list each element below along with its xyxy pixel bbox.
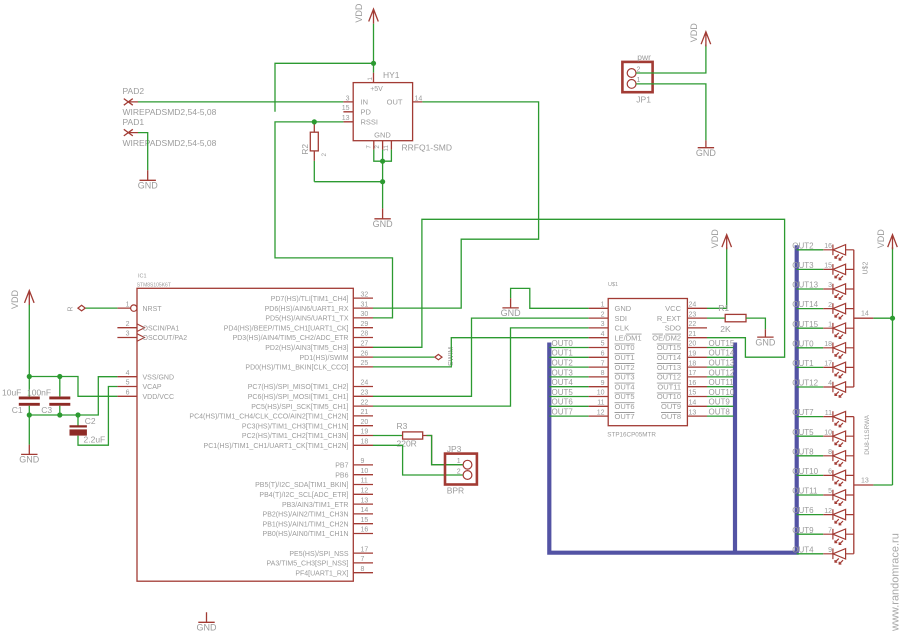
svg-text:OUT0: OUT0 [615,343,635,352]
svg-text:R2: R2 [300,144,310,155]
svg-text:PC6(HS)/SPI_MOSI[TIM1_CH1]: PC6(HS)/SPI_MOSI[TIM1_CH1] [248,394,349,401]
wire NRST [86,307,118,309]
svg-text:22: 22 [689,321,697,328]
wire C2-VCAP [78,387,117,446]
svg-text:CLK: CLK [615,324,630,333]
svg-text:SDO: SDO [665,324,681,333]
svg-text:PB2(HS)/AIN2/TIM1_CH3N: PB2(HS)/AIN2/TIM1_CH3N [263,512,349,519]
wire R3 to JP3 pin1 [423,436,463,465]
wire net OUT6 (bus to LED) [797,514,824,516]
svg-text:OUT7: OUT7 [552,408,574,417]
svg-text:OUT9: OUT9 [792,526,814,535]
capacitor C1 [19,398,40,404]
wire net OUT3 (bus to U$1) [549,376,588,378]
svg-text:18: 18 [824,341,832,348]
svg-text:7: 7 [365,145,372,149]
svg-text:PB6: PB6 [335,472,348,479]
ground (PAD1) [140,170,156,180]
wire common1-VDD [873,317,892,319]
svg-text:17: 17 [689,370,697,377]
LED OUT5 [823,431,854,447]
svg-text:OUT3: OUT3 [792,261,814,270]
svg-text:PC2(HS)/TIM1_CH2[TIM1_CH3N]: PC2(HS)/TIM1_CH2[TIM1_CH3N] [242,433,349,440]
wire net OUT12 (U$1 to bus) [707,376,734,378]
svg-text:PB0(HS)/AIN0/TIM1_CH1N: PB0(HS)/AIN0/TIM1_CH1N [263,531,349,538]
wire net OUT13 (U$1 to bus) [707,366,734,368]
svg-text:4: 4 [126,370,130,377]
svg-text:PB5(T)/I2C_SDA[TIM1_BKIN]: PB5(T)/I2C_SDA[TIM1_BKIN] [255,482,348,489]
junction (29.3,376.5) [27,374,32,379]
svg-text:OUT2: OUT2 [615,363,635,372]
svg-text:PE5(HS)/SPI_NSS: PE5(HS)/SPI_NSS [289,551,348,558]
wire net OUT13 (bus to LED) [797,288,824,290]
wire pin23 to SDI [373,318,589,396]
wire PAD1-GND [138,133,148,171]
svg-text:OUT8: OUT8 [709,408,731,417]
wire net OUT0 (bus to U$1) [549,347,588,349]
svg-text:PC5(HS)/SPI_SCK[TIM5_CH1]: PC5(HS)/SPI_SCK[TIM5_CH1] [251,404,348,411]
svg-text:31: 31 [361,301,369,308]
svg-text:PD5(HS)/AIN5/UART1_TX: PD5(HS)/AIN5/UART1_TX [265,316,348,323]
svg-text:2: 2 [126,321,130,328]
wire net OUT12 (bus to LED) [797,386,824,388]
svg-text:GND: GND [755,337,776,347]
svg-text:GND: GND [615,304,632,313]
junction (382.6,161.2) [380,159,385,164]
svg-text:OUT10: OUT10 [792,467,818,476]
svg-text:www.randomrace.ru: www.randomrace.ru [890,533,900,632]
wire JP1.1-GND [636,84,706,140]
svg-text:DU8-11SRWA: DU8-11SRWA [864,414,871,455]
svg-text:OUT5: OUT5 [792,428,814,437]
svg-text:OUT0: OUT0 [792,339,814,348]
svg-text:16: 16 [361,527,369,534]
wire VDD rail to caps and VDD/VCC [29,305,117,397]
svg-text:32: 32 [361,291,369,298]
svg-text:VDD: VDD [354,3,364,23]
svg-text:pwr: pwr [637,52,651,62]
svg-text:20: 20 [361,419,369,426]
LED OUT15 [823,323,854,339]
svg-text:VDD: VDD [876,229,886,249]
svg-text:OSCOUT/PA2: OSCOUT/PA2 [143,335,188,342]
wire net OUT7 (bus to U$1) [549,415,588,417]
svg-text:OUT11: OUT11 [657,382,681,391]
svg-text:24: 24 [689,302,697,309]
junction (59.8,415) [57,412,62,417]
svg-text:OUT13: OUT13 [657,363,681,372]
power VDD (U$1) [722,235,732,250]
svg-text:VDD/VCC: VDD/VCC [143,394,175,401]
svg-text:STP16CP05MTR: STP16CP05MTR [607,431,656,438]
svg-text:3: 3 [601,321,605,328]
svg-text:11: 11 [361,478,368,485]
HY1 pins [343,73,422,150]
svg-text:2K: 2K [720,324,731,334]
wire VDD-right [892,247,894,485]
svg-text:2: 2 [321,153,328,157]
svg-text:JP1: JP1 [636,95,651,105]
svg-text:9: 9 [601,380,605,387]
svg-text:HY1: HY1 [383,70,400,80]
LED OUT3 [823,264,854,280]
svg-text:1: 1 [367,77,374,81]
svg-text:10: 10 [361,468,369,475]
connector JP3 (BPR) body [445,454,477,485]
svg-text:14: 14 [689,400,697,407]
net NRST diamond endpoint [78,305,85,311]
wire pin18 to JP3 pin2 [373,445,463,475]
wire net OUT5 (bus to LED) [797,435,824,437]
svg-text:PB7: PB7 [335,463,348,470]
svg-text:18: 18 [361,439,369,446]
svg-text:6: 6 [828,469,832,476]
svg-text:OUT12: OUT12 [792,379,818,388]
JP3 pin 2 circle [463,471,472,480]
svg-text:220R: 220R [397,439,417,449]
svg-text:5: 5 [601,341,605,348]
wire VDD to HY1 pin1 and PD [275,24,374,112]
LED OUT1 [823,362,854,378]
svg-text:3: 3 [828,282,832,289]
svg-text:5: 5 [126,380,130,387]
svg-text:SDI: SDI [615,314,628,323]
svg-text:10: 10 [824,429,832,436]
junction (314.3,121.9) [312,119,317,124]
junction (29.3,415) [27,412,32,417]
svg-text:OUT3: OUT3 [552,368,574,377]
junction (382.6,181.7) [380,179,385,184]
ground (U$1 pin1) [502,298,518,308]
svg-text:10uF: 10uF [2,388,21,398]
svg-text:17: 17 [824,361,832,368]
svg-text:OUT10: OUT10 [709,388,735,397]
svg-text:OUT4: OUT4 [615,382,635,391]
wire net OUT5 (bus to U$1) [549,396,588,398]
svg-text:OUT9: OUT9 [661,402,681,411]
svg-text:PD: PD [361,107,372,116]
svg-text:VSS/GND: VSS/GND [143,374,175,381]
svg-text:11: 11 [383,145,390,152]
wire net OUT1 (bus to U$1) [549,356,588,358]
svg-text:OUT: OUT [387,98,403,107]
svg-text:JP3: JP3 [447,444,462,454]
svg-text:OUT3: OUT3 [615,373,635,382]
svg-text:23: 23 [689,311,697,318]
wire VSS rail [29,377,117,415]
LED OUT6 [823,509,854,525]
LED OUT10 [823,470,854,486]
power VDD (JP1) [701,32,711,47]
svg-text:OUT14: OUT14 [657,353,681,362]
svg-text:17: 17 [361,546,369,553]
svg-text:PD3(HS)/AIN4/TIM5_CH2/ADC_ETR: PD3(HS)/AIN4/TIM5_CH2/ADC_ETR [233,335,349,342]
svg-text:OUT12: OUT12 [709,368,735,377]
wire pad PAD2 (X symbol) [124,99,138,106]
svg-text:2: 2 [374,145,381,149]
wire pad PAD1 (X symbol) [124,129,138,136]
svg-text:2: 2 [828,302,832,309]
wire R_EXT to R1 [707,317,725,319]
svg-text:R3: R3 [397,421,408,431]
svg-text:PC1(HS)/TIM1_CH1/UART1_CK[TIM1: PC1(HS)/TIM1_CH1/UART1_CK[TIM1_CH2N] [204,443,349,450]
wire net OUT2 (bus to U$1) [549,366,588,368]
svg-text:PB4(T)/I2C_SCL[ADC_ETR]: PB4(T)/I2C_SCL[ADC_ETR] [259,492,348,499]
svg-text:15: 15 [361,517,369,524]
svg-text:15: 15 [824,263,832,270]
svg-text:OUT6: OUT6 [615,402,635,411]
svg-text:14: 14 [361,507,369,514]
svg-text:1: 1 [457,458,461,465]
svg-text:RRFQ1-SMD: RRFQ1-SMD [402,142,453,152]
wire net OUT3 (bus to LED) [797,268,824,270]
svg-text:24: 24 [361,380,369,387]
svg-text:PB1(HS)/AIN1/TIM1_CH2N: PB1(HS)/AIN1/TIM1_CH2N [263,521,349,528]
junction (78,415) [75,412,80,417]
svg-text:25: 25 [361,360,369,367]
microcontroller IC1 body [137,288,353,581]
svg-text:VDD: VDD [710,229,720,249]
wire pin25 to LE/DM1 [373,338,589,367]
svg-text:PD4(HS)/BEEP/TIM5_CH1[UART1_CK: PD4(HS)/BEEP/TIM5_CH1[UART1_CK] [224,325,349,332]
wire PAD2-IN [138,101,343,103]
svg-text:OE/DM2: OE/DM2 [652,333,681,342]
wire SWIM [373,356,434,358]
svg-text:28: 28 [361,331,369,338]
svg-text:OUT7: OUT7 [615,412,635,421]
wire net OUT10 (bus to LED) [797,474,824,476]
svg-text:OUT2: OUT2 [552,359,574,368]
svg-text:PD6(HS)/AIN6/UART1_RX: PD6(HS)/AIN6/UART1_RX [265,306,349,313]
svg-text:23: 23 [361,390,369,397]
svg-text:7: 7 [601,360,605,367]
svg-text:GND: GND [501,308,522,318]
svg-text:OUT4: OUT4 [792,545,814,554]
JP1 pin 1 circle [627,80,636,89]
connector JP1 (pwr) body [622,62,652,92]
svg-text:VCAP: VCAP [143,384,162,391]
svg-text:PC3(HS)/TIM1_CH3[TIM1_CH1N]: PC3(HS)/TIM1_CH3[TIM1_CH1N] [242,423,349,430]
svg-text:PD2(HS)/AIN3[TIM5_CH3]: PD2(HS)/AIN3[TIM5_CH3] [265,345,348,352]
wire cap bottoms [29,406,78,445]
svg-text:13: 13 [689,409,697,416]
svg-text:STM8S105K6T: STM8S105K6T [137,282,171,288]
svg-text:5: 5 [828,488,832,495]
wire R2-GND [313,161,315,182]
svg-text:OUT4: OUT4 [552,378,574,387]
LED OUT11 [823,490,854,506]
svg-text:PC7(HS)/SPI_MISO[TIM1_CH2]: PC7(HS)/SPI_MISO[TIM1_CH2] [248,384,349,391]
wire net OUT4 (bus to U$1) [549,386,588,388]
wire common2-VDD [873,484,892,486]
svg-text:OUT0: OUT0 [552,339,574,348]
svg-text:7: 7 [828,527,832,534]
LED driver U$1 body [608,299,687,426]
wire U$1 GND pin [511,288,589,308]
svg-text:OUT9: OUT9 [709,398,731,407]
wire pin22 to CLK [373,328,589,406]
svg-text:VDD: VDD [10,289,20,309]
wire U$1 VCC to VDD [707,247,727,308]
svg-text:OUT12: OUT12 [657,373,681,382]
svg-text:PD0(HS)/TIM1_BKIN[CLK_CCO]: PD0(HS)/TIM1_BKIN[CLK_CCO] [245,365,348,372]
svg-text:GND: GND [696,148,717,158]
svg-text:22: 22 [361,399,369,406]
svg-text:1: 1 [828,321,832,328]
svg-text:BPR: BPR [447,486,464,496]
svg-text:PAD1: PAD1 [123,117,145,127]
svg-text:OUT1: OUT1 [552,349,574,358]
svg-text:3: 3 [346,95,350,102]
svg-text:20: 20 [689,341,697,348]
svg-text:21: 21 [361,409,369,416]
LED OUT0 [823,343,854,359]
svg-text:1: 1 [601,302,605,309]
svg-text:26: 26 [361,350,369,357]
LED OUT8 [823,451,854,467]
svg-text:U$2: U$2 [863,262,870,275]
ground (HY1) [374,208,390,218]
svg-text:IC1: IC1 [138,274,147,280]
wire OUT to pin31 [373,102,539,308]
svg-text:WIREPADSMD2,54-5,08: WIREPADSMD2,54-5,08 [123,107,217,117]
power VDD (top, HY1 supply) [369,9,379,24]
U$1 right pins [687,308,707,416]
svg-text:12: 12 [824,508,832,515]
svg-text:21: 21 [689,331,697,338]
wire net OUT11 (U$1 to bus) [707,386,734,388]
svg-text:13: 13 [861,478,869,485]
svg-text:8: 8 [601,370,605,377]
svg-text:OUT10: OUT10 [657,392,681,401]
svg-text:OUT2: OUT2 [792,241,814,250]
IC1 clock wedge pin 3 [137,334,145,342]
svg-text:OUT5: OUT5 [615,392,635,401]
svg-text:LE/DM1: LE/DM1 [615,333,642,342]
svg-text:+5V: +5V [370,86,383,93]
svg-text:16: 16 [689,380,697,387]
svg-text:RSSI: RSSI [361,117,379,126]
svg-text:OUT6: OUT6 [792,506,814,515]
svg-text:R_EXT: R_EXT [657,314,682,323]
svg-text:OUT15: OUT15 [709,339,735,348]
svg-text:14: 14 [415,95,423,102]
junction (373.5,63.3) [371,61,376,66]
svg-text:11: 11 [825,410,832,417]
svg-text:6: 6 [601,351,605,358]
wire pin19 to R3 [373,435,403,437]
svg-text:2: 2 [637,66,641,73]
svg-text:OUT1: OUT1 [792,359,814,368]
svg-text:1: 1 [126,301,130,308]
svg-text:2: 2 [457,468,461,475]
svg-text:GND: GND [138,181,159,191]
resistor R2 [313,122,315,161]
LED OUT13 [823,284,854,300]
svg-text:OUT6: OUT6 [552,398,574,407]
LED array common anode line (group 2) [854,417,874,554]
svg-text:GND: GND [19,455,40,465]
svg-text:OSCIN/PA1: OSCIN/PA1 [143,325,180,332]
wire net OUT14 (U$1 to bus) [707,356,734,358]
IC1 right-side pins [353,298,373,573]
LED OUT14 [823,303,854,319]
svg-text:29: 29 [361,321,369,328]
svg-text:C2: C2 [85,416,96,426]
IC1 pin 1 inversion circle [131,305,137,311]
svg-text:6: 6 [126,390,130,397]
svg-text:OUT8: OUT8 [792,447,814,456]
svg-text:18: 18 [689,360,697,367]
svg-text:8: 8 [828,449,832,456]
RF module HY1 (RRFQ1-SMD) body [353,83,412,141]
wire net OUT11 (bus to LED) [797,494,824,496]
svg-text:100nF: 100nF [27,388,51,398]
svg-text:9: 9 [361,458,365,465]
svg-text:PF4[UART1_RX]: PF4[UART1_RX] [295,570,348,577]
svg-text:15: 15 [689,390,697,397]
svg-text:OUT14: OUT14 [792,300,818,309]
svg-text:WIREPADSMD2,54-5,08: WIREPADSMD2,54-5,08 [123,138,217,148]
svg-text:OUT8: OUT8 [661,412,681,421]
wire net OUT14 (bus to LED) [797,308,824,310]
svg-text:16: 16 [824,243,832,250]
svg-text:11: 11 [597,400,604,407]
svg-text:GND: GND [373,219,394,229]
svg-text:7: 7 [361,556,365,563]
svg-text:30: 30 [361,311,369,318]
svg-text:OUT11: OUT11 [792,487,818,496]
svg-text:PA3/TIM5_CH3[SPI_NSS]: PA3/TIM5_CH3[SPI_NSS] [267,561,349,568]
wire net OUT10 (U$1 to bus) [707,396,734,398]
wire net OUT2 (bus to LED) [797,249,824,251]
LED OUT7 [823,411,854,427]
svg-text:OUT15: OUT15 [657,343,681,352]
JP1 pin 2 circle [627,69,636,78]
IC1 clock wedge pin 2 [137,324,145,332]
svg-text:OUT13: OUT13 [792,281,818,290]
ground (R1) [757,329,773,337]
power VDD (left) [25,291,35,306]
LED OUT12 [823,382,854,398]
svg-text:OUT11: OUT11 [709,378,735,387]
svg-text:10: 10 [597,390,605,397]
svg-text:GND: GND [197,623,218,633]
svg-text:19: 19 [361,429,369,436]
svg-text:U$1: U$1 [608,282,618,288]
svg-text:PD1(HS)/SWIM: PD1(HS)/SWIM [300,355,349,362]
svg-text:R: R [68,306,75,311]
wire net OUT9 (U$1 to bus) [707,405,734,407]
svg-text:VCC: VCC [665,304,681,313]
ground (C1) [21,445,37,455]
wire HY1-GND net [314,150,391,209]
IC1 left-side pins [117,308,137,396]
svg-text:PC4(HS)/TIM1_CH4/CLK_CCO/AIN2[: PC4(HS)/TIM1_CH4/CLK_CCO/AIN2[TIM1_CH2N] [189,414,348,421]
svg-text:PD7(HS)/TLI[TIM1_CH4]: PD7(HS)/TLI[TIM1_CH4] [271,296,349,303]
svg-text:C1: C1 [12,405,23,415]
wire net OUT0 (bus to LED) [797,347,824,349]
junction (892.5,318.2) [890,316,895,321]
svg-text:8: 8 [361,566,365,573]
svg-text:2: 2 [601,311,605,318]
LED OUT9 [823,529,854,545]
svg-text:NRST: NRST [143,306,163,313]
wire net OUT6 (bus to U$1) [549,405,588,407]
svg-text:4: 4 [828,380,832,387]
svg-text:R1: R1 [718,303,729,313]
wire net OUT4 (bus to LED) [797,553,824,555]
